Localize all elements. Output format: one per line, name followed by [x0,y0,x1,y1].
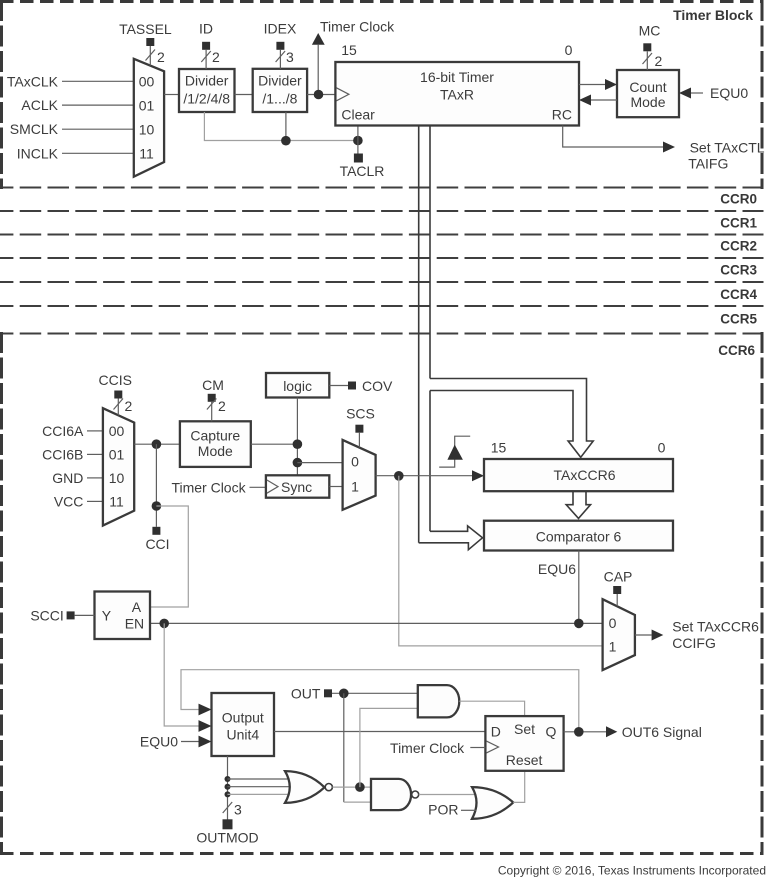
svg-text:ID: ID [199,20,213,36]
svg-text:/1/2/4/8: /1/2/4/8 [183,91,230,107]
svg-text:COV: COV [362,378,393,394]
svg-text:INCLK: INCLK [17,145,59,161]
svg-text:CCI6A: CCI6A [42,423,84,439]
svg-text:TAxR: TAxR [440,87,474,103]
svg-text:Reset: Reset [506,752,543,768]
svg-text:00: 00 [139,74,155,90]
svg-text:0: 0 [609,615,617,631]
svg-text:Divider: Divider [185,73,229,89]
svg-text:CCR6: CCR6 [718,343,755,358]
svg-text:CCR1: CCR1 [720,215,757,230]
svg-text:VCC: VCC [54,493,84,509]
svg-text:11: 11 [109,493,124,509]
svg-text:SCCI: SCCI [30,607,63,623]
svg-text:Q: Q [546,724,557,740]
svg-text:01: 01 [139,97,155,113]
svg-text:Set TAxCTL: Set TAxCTL [690,140,765,156]
svg-text:Output: Output [222,710,264,726]
svg-text:CCR4: CCR4 [720,287,757,302]
svg-text:0: 0 [658,440,666,456]
svg-text:/1.../8: /1.../8 [262,91,297,107]
svg-text:CCR2: CCR2 [720,239,757,254]
svg-text:TAxCLK: TAxCLK [7,73,59,89]
svg-text:CCR0: CCR0 [720,192,757,207]
svg-text:Timer Clock: Timer Clock [320,19,395,35]
svg-text:SMCLK: SMCLK [10,121,59,137]
svg-text:Sync: Sync [281,479,312,495]
svg-text:10: 10 [109,470,125,486]
svg-text:Timer Block: Timer Block [673,7,753,23]
svg-text:CCIFG: CCIFG [672,635,716,651]
svg-text:D: D [491,724,501,740]
svg-text:2: 2 [157,49,165,65]
svg-text:MC: MC [639,23,661,39]
svg-text:2: 2 [212,49,220,65]
svg-text:1: 1 [609,638,617,654]
svg-text:SCS: SCS [346,405,375,421]
svg-text:15: 15 [341,42,357,58]
svg-text:11: 11 [139,146,154,162]
svg-text:CCR3: CCR3 [720,263,757,278]
svg-text:IDEX: IDEX [264,20,297,36]
svg-text:ACLK: ACLK [21,97,58,113]
svg-text:01: 01 [109,446,125,462]
svg-text:CCI6B: CCI6B [42,446,83,462]
svg-text:CAP: CAP [604,569,633,585]
svg-text:3: 3 [234,802,242,818]
svg-text:0: 0 [351,454,359,470]
svg-text:Y: Y [102,607,112,623]
svg-text:Divider: Divider [258,73,302,89]
svg-text:EQU0: EQU0 [710,85,748,101]
svg-text:OUTMOD: OUTMOD [196,830,258,846]
svg-text:POR: POR [428,802,458,818]
svg-text:CCR5: CCR5 [720,311,757,326]
svg-text:Timer Clock: Timer Clock [171,479,246,495]
svg-text:logic: logic [283,378,312,394]
svg-text:CCIS: CCIS [98,372,131,388]
svg-text:16-bit Timer: 16-bit Timer [420,69,494,85]
svg-text:Comparator 6: Comparator 6 [536,529,622,545]
svg-text:TASSEL: TASSEL [119,21,172,37]
svg-text:Mode: Mode [198,443,233,459]
svg-text:2: 2 [218,398,226,414]
svg-text:2: 2 [655,53,663,69]
svg-text:Mode: Mode [630,94,665,110]
svg-text:RC: RC [552,107,572,123]
svg-text:EQU0: EQU0 [140,734,178,750]
svg-text:EN: EN [125,615,144,631]
svg-text:Clear: Clear [341,107,375,123]
svg-text:0: 0 [565,42,573,58]
svg-text:TACLR: TACLR [340,163,385,179]
svg-text:CM: CM [202,377,224,393]
svg-text:OUT: OUT [291,685,321,701]
svg-text:CCI: CCI [145,536,169,552]
svg-text:10: 10 [139,121,155,137]
svg-text:Copyright © 2016, Texas Instru: Copyright © 2016, Texas Instruments Inco… [498,864,766,877]
svg-text:Set TAxCCR6: Set TAxCCR6 [672,619,759,635]
svg-text:00: 00 [109,423,125,439]
svg-text:2: 2 [125,398,133,414]
svg-text:Set: Set [514,721,535,737]
svg-text:Capture: Capture [190,428,240,444]
svg-text:GND: GND [52,470,83,486]
svg-text:1: 1 [351,478,359,494]
svg-text:Unit4: Unit4 [226,727,259,743]
svg-text:Timer Clock: Timer Clock [390,740,465,756]
svg-text:TAxCCR6: TAxCCR6 [554,467,616,483]
svg-text:TAIFG: TAIFG [688,156,728,172]
svg-text:15: 15 [491,440,507,456]
svg-text:3: 3 [286,49,294,65]
svg-text:A: A [132,599,142,615]
svg-text:Count: Count [629,79,666,95]
svg-text:OUT6 Signal: OUT6 Signal [622,724,702,740]
svg-text:EQU6: EQU6 [538,561,576,577]
